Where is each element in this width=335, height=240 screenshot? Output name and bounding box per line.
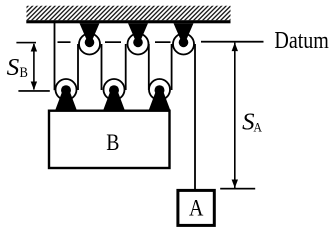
svg-text:S: S <box>7 54 20 81</box>
svg-text:A: A <box>189 195 204 221</box>
ceiling hatch <box>13 5 245 21</box>
S_B arrowhead up <box>31 43 37 52</box>
svg-text:B: B <box>20 65 28 81</box>
wire V4 L2 to P2 <box>125 44 127 90</box>
S_B arrow shaft <box>33 44 35 90</box>
datum dashed segment 2 <box>105 41 121 43</box>
bracket of lower pulley L2 <box>103 88 125 111</box>
datum dashed segment 3 <box>155 41 171 43</box>
block B <box>49 111 170 168</box>
wire V2 L1 to P1 <box>77 44 79 90</box>
datum line (solid, right) <box>201 41 264 43</box>
top pulley P1 <box>79 34 100 55</box>
svg-text:A: A <box>253 119 262 134</box>
hub of P3 <box>179 38 189 48</box>
datum dashed segment 1 <box>58 41 71 43</box>
top pulley P2 <box>128 34 149 55</box>
hub of P1 <box>85 38 95 48</box>
bracket of lower pulley L3 <box>149 88 171 111</box>
hub of P2 <box>133 38 143 48</box>
wire V1 ceiling to lower pulley L1 <box>54 23 56 90</box>
bracket of top pulley P2 <box>128 23 148 46</box>
bracket of lower pulley L1 <box>55 88 77 111</box>
hub of L3 <box>155 85 165 95</box>
lower pulley L1 <box>56 79 77 100</box>
wire V5 P2 to L3 <box>148 44 150 90</box>
S_A bottom tick <box>220 188 255 190</box>
S_A arrowhead down <box>232 180 238 189</box>
S_A arrowhead up <box>232 43 238 52</box>
block A <box>178 190 214 225</box>
lower pulley L2 <box>104 79 125 100</box>
wire V3 P1 to L2 <box>101 44 103 90</box>
bracket of top pulley P3 <box>174 23 194 46</box>
top pulley P3 <box>173 34 194 55</box>
S_B bottom tick <box>18 90 49 92</box>
wire V7 P3 down to block A <box>194 44 196 190</box>
bracket of top pulley P1 <box>80 23 100 46</box>
S_B arrowhead down <box>31 82 37 91</box>
ceiling bottom bar <box>26 20 230 23</box>
lower pulley L3 <box>149 79 170 100</box>
S_A arrow shaft <box>234 43 236 188</box>
hub of L1 <box>61 85 71 95</box>
wire V6 L3 to P3 <box>171 44 173 90</box>
svg-text:Datum: Datum <box>274 28 329 54</box>
S_B top tick <box>16 42 36 44</box>
svg-text:B: B <box>106 130 119 155</box>
hub of L2 <box>109 85 119 95</box>
